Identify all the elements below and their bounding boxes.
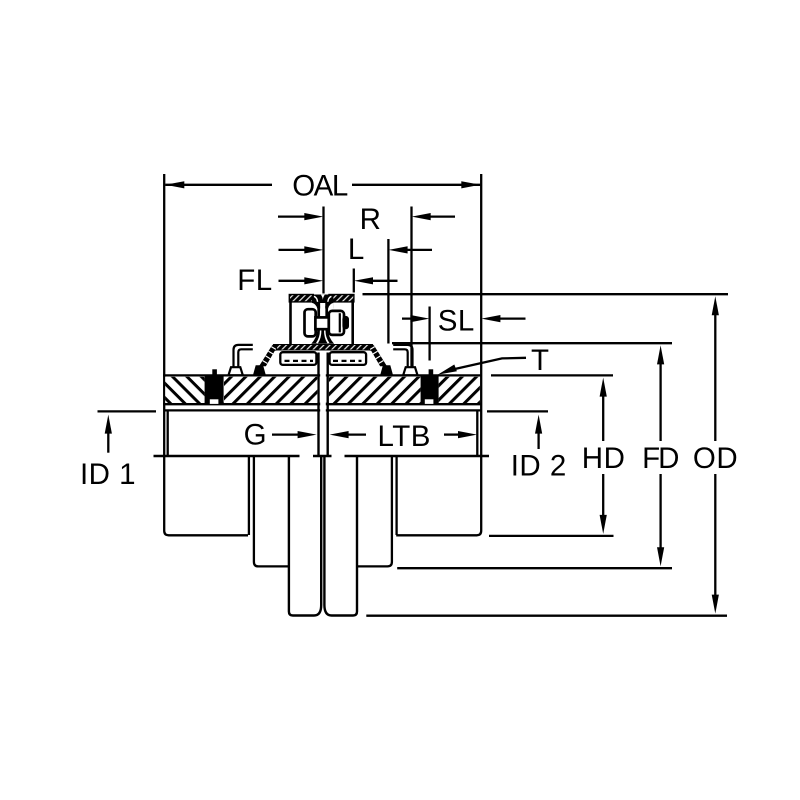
- chimney left wall: [289, 296, 292, 345]
- right plate dashed line: [333, 360, 362, 362]
- G arrow line: [272, 433, 299, 435]
- grid loop white outer wedge left: [312, 303, 317, 309]
- L left arrowhead: [304, 246, 323, 253]
- svg-text:R: R: [360, 203, 382, 236]
- grid square left notch: [210, 399, 219, 404]
- right seal hook: [393, 345, 412, 367]
- OAL left arrowhead: [165, 181, 184, 188]
- nut face line: [339, 313, 341, 332]
- shaft 2 (right) U profile: [324, 457, 357, 616]
- grid square left: [205, 376, 224, 403]
- FL extension line: [353, 269, 355, 293]
- T leader line: [452, 358, 526, 370]
- left seal foot: [229, 367, 243, 375]
- right seal blob: [380, 365, 393, 375]
- grid square left stub: [212, 369, 217, 376]
- FL left arrowhead: [304, 277, 323, 284]
- LTB left arrow line: [348, 433, 366, 435]
- R left arrowhead: [304, 213, 323, 220]
- grid loop white slit right: [328, 296, 332, 302]
- right seal foot: [403, 367, 417, 375]
- gray shank stub: [321, 331, 324, 336]
- svg-text:FD: FD: [642, 442, 678, 475]
- svg-text:T: T: [531, 344, 550, 377]
- OD up arrowhead: [712, 296, 719, 315]
- arch band right slope: [369, 345, 386, 366]
- FD down arrowhead: [657, 547, 664, 566]
- svg-text:ID 2: ID 2: [511, 449, 567, 482]
- left outer edge + OAL left extension + box bottom-left: [164, 174, 248, 535]
- step2 left inner line + bottom: [254, 457, 288, 566]
- grid loop bend block: [312, 295, 333, 309]
- step2 left outer line: [248, 457, 250, 535]
- chimney top band left: [289, 295, 313, 302]
- grid square right stub: [429, 369, 434, 376]
- hub face left: [317, 353, 319, 456]
- grid loop white core top: [320, 303, 325, 309]
- R left extension line: [322, 207, 324, 294]
- left plate dashed line: [285, 360, 314, 362]
- HD vertical lines: [602, 396, 604, 516]
- L dimension arrow lines: [279, 249, 433, 251]
- hub top line: [164, 409, 481, 411]
- L extension line: [387, 239, 389, 344]
- ID1 arrow line: [107, 433, 109, 453]
- svg-text:L: L: [348, 233, 365, 266]
- svg-text:SL: SL: [438, 304, 475, 337]
- grid loop white slit left: [314, 296, 318, 302]
- bolt head: [305, 309, 316, 336]
- svg-text:LTB: LTB: [377, 420, 430, 453]
- svg-text:HD: HD: [582, 442, 626, 475]
- FL dimension arrow lines: [279, 280, 398, 282]
- flange hatch segment D: [439, 377, 480, 403]
- grid stem right line: [325, 306, 328, 331]
- flange hatch segment A: [165, 377, 204, 403]
- R right arrowhead: [412, 213, 431, 220]
- funnel white slit right: [324, 331, 329, 344]
- chimney top band right: [329, 295, 354, 302]
- step2 right inner line + bottom: [358, 457, 392, 566]
- HD up arrowhead: [600, 378, 607, 397]
- SL right arrowhead: [481, 315, 500, 322]
- FD top line: [392, 342, 672, 344]
- OD bottom line: [366, 615, 727, 617]
- flange top line: [163, 374, 481, 376]
- LTB left arrowhead: [330, 431, 349, 438]
- bolt shank square: [315, 317, 328, 329]
- grid square right notch: [425, 399, 434, 404]
- HD down arrowhead: [600, 515, 607, 534]
- arch band top: [272, 345, 375, 351]
- svg-text:OAL: OAL: [292, 169, 348, 202]
- right inner plate: [330, 352, 367, 365]
- hub bottom line: [154, 455, 490, 458]
- L right arrowhead: [389, 246, 408, 253]
- R right extension line: [410, 207, 412, 375]
- svg-text:FL: FL: [237, 264, 272, 297]
- SL arrow lines: [402, 317, 526, 319]
- nut: [329, 311, 344, 335]
- ID1 extension line: [98, 410, 157, 412]
- flange bottom line: [163, 403, 481, 406]
- left seal hook: [234, 345, 253, 367]
- SL left extension line: [428, 307, 430, 361]
- shaft 1 (left) U profile: [289, 457, 321, 616]
- T leader arrowhead: [438, 365, 457, 375]
- hub inner edge left: [167, 411, 169, 455]
- left seal blob: [253, 365, 266, 375]
- OAL dimension line: [165, 184, 480, 186]
- bolt end blob: [342, 316, 349, 329]
- OD top line: [363, 293, 729, 295]
- OD down arrowhead: [712, 595, 719, 614]
- R dimension arrows lines: [278, 215, 455, 217]
- svg-text:ID 1: ID 1: [80, 458, 136, 491]
- arch band right slope ticks: [370, 347, 383, 364]
- G arrowhead: [298, 431, 317, 438]
- grid loop white V notch: [321, 295, 325, 300]
- FD bottom line: [397, 567, 672, 569]
- grid square right: [421, 376, 439, 403]
- SL left arrowhead: [410, 315, 429, 322]
- funnel white slit left: [316, 331, 321, 344]
- hub inner edge right: [476, 411, 478, 455]
- LTB right arrow line: [444, 433, 459, 435]
- FD vertical lines: [659, 364, 661, 548]
- right outer edge + OAL right extension + box bottom-right: [396, 174, 481, 535]
- chimney right wall: [351, 296, 354, 345]
- arch band left slope: [260, 345, 277, 366]
- left inner plate: [280, 352, 316, 365]
- ID2 arrowhead: [535, 415, 542, 434]
- grid stem left line: [317, 306, 320, 331]
- grid loop white outer wedge right: [328, 303, 333, 309]
- svg-text:G: G: [244, 419, 267, 452]
- svg-text:OD: OD: [693, 442, 738, 475]
- OAL right arrowhead: [461, 181, 480, 188]
- step2 right outer line: [395, 457, 397, 535]
- ID2 arrow line: [537, 433, 539, 449]
- flange hatch segment C: [329, 377, 421, 403]
- OD vertical lines: [714, 315, 716, 595]
- FD up arrowhead: [657, 345, 664, 364]
- ID1 arrowhead: [105, 415, 112, 434]
- hub face right: [327, 353, 329, 456]
- flange hatch segment B: [224, 377, 317, 403]
- arch band left slope ticks: [263, 347, 276, 364]
- HD top line: [491, 374, 613, 376]
- funnel trumpet block: [311, 330, 334, 344]
- ID2 extension line: [487, 410, 548, 412]
- HD bottom line: [489, 535, 614, 537]
- FL right arrowhead: [354, 277, 373, 284]
- LTB right arrowhead: [458, 431, 477, 438]
